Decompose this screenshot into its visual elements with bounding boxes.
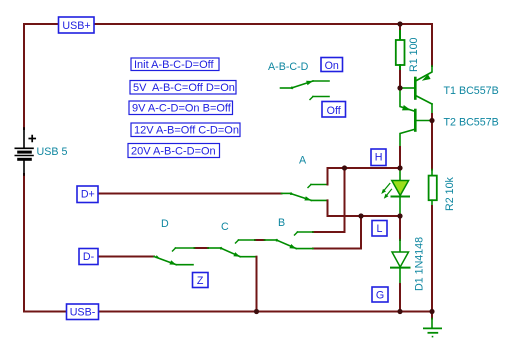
svg-text:R2 10k: R2 10k	[444, 176, 456, 211]
svg-text:20V A-B-C-D=On: 20V A-B-C-D=On	[131, 146, 216, 158]
resistor R1	[396, 40, 405, 65]
switch C pivot tick	[220, 247, 224, 250]
junction node ground	[429, 309, 434, 314]
legend switch Off contact	[313, 96, 329, 98]
wire switch C upper contact to switch B common	[255, 239, 265, 241]
legend switch common	[281, 87, 292, 89]
wire diode D1 bottom lead to ground rail	[399, 268, 401, 284]
svg-text:L: L	[377, 223, 383, 235]
svg-text:9V A-C-D=On B=Off: 9V A-C-D=On B=Off	[132, 103, 232, 115]
svg-text:B: B	[278, 217, 285, 229]
transistor T1 collector	[417, 96, 433, 104]
switch A blade	[291, 194, 312, 201]
svg-text:Init A-B-C-D=Off: Init A-B-C-D=Off	[134, 59, 215, 71]
wire LED bottom lead to node L	[399, 197, 401, 216]
transistor T2 collector	[400, 130, 414, 148]
junction node H	[397, 165, 402, 170]
legend box 12V	[131, 123, 240, 137]
legend switch Off contact tick	[310, 97, 313, 100]
label box D+	[77, 186, 98, 203]
legend switch pivot tick	[291, 87, 295, 90]
svg-text:H: H	[375, 151, 383, 163]
switch B blade	[276, 240, 296, 249]
wire LED top lead	[399, 169, 401, 181]
switch B blade arrowhead	[289, 244, 296, 249]
switch A upper contact	[311, 184, 328, 186]
transistor T1 emitter	[417, 66, 433, 81]
junction node L	[397, 213, 402, 218]
junction node R1 bottom T1 base T2 emitter	[397, 85, 402, 90]
label box USB-	[67, 304, 99, 320]
svg-text:Z: Z	[197, 275, 204, 287]
svg-text:D: D	[161, 218, 169, 230]
svg-text:Off: Off	[327, 105, 341, 117]
svg-text:D+: D+	[81, 189, 95, 201]
legend switch On contact	[313, 80, 329, 82]
junction node on top rail at R1	[397, 21, 402, 26]
switch B lower contact	[296, 248, 313, 250]
LED D2 triangle	[392, 181, 409, 196]
svg-text:R1 100: R1 100	[408, 37, 420, 72]
wire L rail junction down to switch B lower contact	[313, 216, 361, 249]
transistor T2 base lead	[417, 120, 433, 122]
LED D2 emission arrow 1	[384, 184, 390, 192]
junction node T1 collector T2 base R2	[429, 118, 434, 123]
wire top rail USB+ to right corner	[24, 24, 432, 129]
battery B1 plate long 1	[15, 147, 33, 149]
switch D upper contact	[176, 247, 195, 249]
diode D1 triangle	[392, 252, 409, 267]
label box D-	[79, 249, 98, 265]
battery B1 plate short 1	[19, 151, 31, 154]
switch C upper contact	[239, 239, 256, 241]
transistor T1 base lead	[400, 87, 414, 89]
svg-text:G: G	[376, 289, 384, 301]
diode D1 cathode bar	[391, 267, 410, 269]
label box Off	[322, 102, 346, 118]
wire switch D upper contact to switch C common	[195, 247, 209, 249]
legend box 9V	[129, 101, 233, 115]
wire R1 bottom lead to node	[399, 65, 401, 71]
svg-text:C: C	[221, 221, 229, 233]
LED D2 cathode bar	[392, 196, 410, 198]
switch D blade	[154, 257, 176, 265]
switch D blade arrowhead	[169, 260, 176, 265]
wire switch A lower contact to L rail	[328, 200, 401, 216]
wire T1 collector to T2 base node	[431, 104, 433, 114]
label box USB+	[59, 17, 95, 33]
label box Z	[193, 273, 209, 288]
svg-text:A-B-C-D: A-B-C-D	[268, 61, 309, 73]
svg-text:A: A	[299, 155, 307, 167]
svg-text:T1 BC557B: T1 BC557B	[444, 85, 499, 97]
legend box 5V	[130, 81, 236, 95]
label box G	[372, 287, 388, 302]
switch C common stub	[208, 247, 221, 249]
switch C upper contact tick	[236, 240, 239, 243]
switch A pivot tick	[290, 192, 294, 195]
switch C lower contact	[240, 256, 256, 258]
transistor T2 base bar	[414, 110, 417, 131]
switch A blade arrowhead	[304, 196, 311, 200]
battery B1 USB 5 lead top	[23, 128, 25, 148]
battery B1 plate short 2	[19, 158, 31, 161]
svg-text:USB-: USB-	[70, 306, 96, 318]
wire R2 bottom lead to ground rail	[431, 200, 433, 207]
label box On	[321, 58, 343, 73]
switch A upper contact tick	[308, 185, 311, 188]
resistor R2	[429, 176, 437, 201]
switch C blade arrowhead	[233, 252, 240, 257]
svg-text:On: On	[325, 60, 339, 72]
switch B upper contact tick	[295, 232, 298, 235]
svg-text:D-: D-	[83, 251, 95, 263]
switch C blade	[221, 248, 241, 257]
label box L	[372, 221, 387, 237]
transistor T2 emitter arrow	[402, 105, 411, 110]
switch B common stub	[265, 239, 277, 241]
switch A common stub	[282, 192, 291, 194]
wire D- to switch D	[98, 256, 154, 258]
svg-text:12V A-B=Off C-D=On: 12V A-B=Off C-D=On	[134, 125, 239, 137]
switch D pivot tick	[155, 255, 159, 258]
svg-text:T2 BC557B: T2 BC557B	[444, 117, 499, 129]
transistor T2 emitter	[400, 88, 414, 111]
legend switch blade arrowhead	[306, 81, 313, 85]
junction node H rail to B	[342, 165, 347, 170]
wire D+ to switch A	[98, 193, 282, 195]
switch A lower contact	[311, 199, 327, 201]
wire switch A upper contact to H rail	[328, 168, 401, 185]
wire T2 collector down to node H	[399, 147, 401, 168]
switch B pivot tick	[276, 239, 280, 242]
transistor T1 base bar	[414, 78, 417, 99]
svg-text:USB 5: USB 5	[37, 146, 68, 158]
svg-text:D1 1N4148: D1 1N4148	[414, 237, 426, 291]
wire left vertical below battery	[24, 174, 432, 312]
wire R2 top lead from T2 base node	[431, 121, 433, 170]
ground symbol	[431, 312, 433, 319]
svg-text:USB+: USB+	[62, 20, 90, 32]
battery B1 plate long 2	[15, 155, 33, 157]
legend box Init	[131, 58, 219, 71]
battery B1 lead bottom	[23, 161, 25, 175]
junction node C to ground rail	[254, 309, 259, 314]
LED D2 emission arrow 2	[386, 189, 391, 196]
wire switch C lower contact down to ground rail	[256, 257, 258, 312]
legend switch blade to On	[292, 81, 314, 88]
junction node L rail to B	[358, 213, 363, 218]
switch D lower contact stub Z	[176, 264, 193, 266]
switch B upper contact	[298, 231, 314, 233]
switch D upper contact tick	[173, 248, 176, 251]
wire node L down to diode D1	[399, 216, 401, 240]
svg-text:5V A-B-C=Off D=On: 5V A-B-C=Off D=On	[133, 82, 235, 94]
legend box 20V	[128, 144, 220, 158]
transistor T1 emitter arrow	[422, 74, 431, 81]
label box H	[371, 149, 386, 166]
junction node D1 to ground rail	[397, 309, 402, 314]
battery B1 plus sign	[29, 138, 35, 140]
wire R1 top lead	[399, 24, 401, 31]
wire H rail junction down to switch B upper contact	[313, 168, 345, 232]
